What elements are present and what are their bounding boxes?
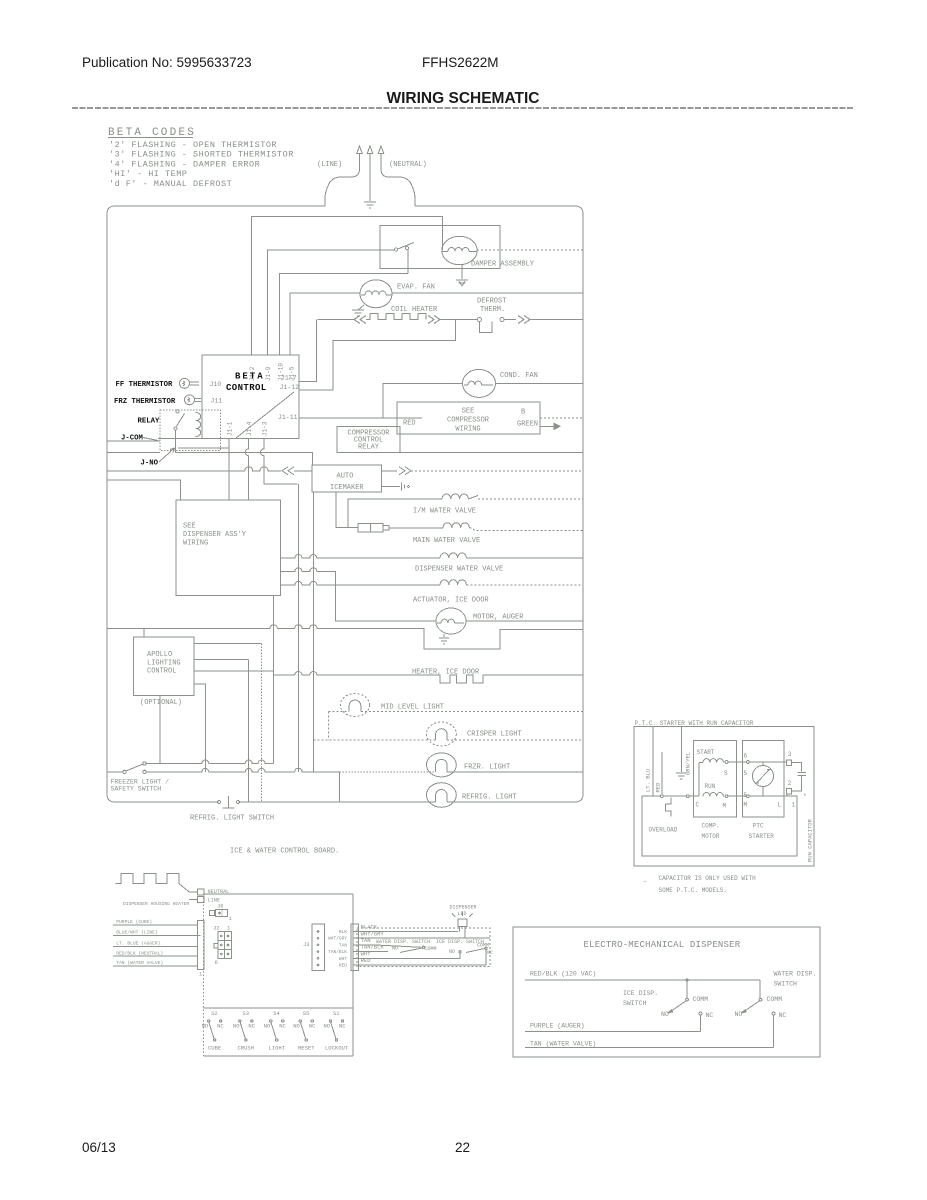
- svg-text:TAN: TAN: [339, 942, 347, 948]
- svg-text:NC: NC: [217, 1023, 224, 1030]
- svg-text:2: 2: [788, 780, 792, 787]
- svg-text:BLK: BLK: [339, 929, 347, 935]
- svg-text:BETA CODES: BETA CODES: [108, 127, 196, 139]
- svg-text:S4: S4: [273, 1010, 280, 1017]
- svg-text:PURPLE (CUBE): PURPLE (CUBE): [116, 919, 152, 925]
- svg-text:HEATER, ICE DOOR: HEATER, ICE DOOR: [412, 669, 480, 677]
- svg-text:S5: S5: [303, 1010, 310, 1017]
- svg-text:NC: NC: [248, 1023, 255, 1030]
- svg-text:WHT: WHT: [339, 956, 347, 962]
- svg-text:P.T.C. STARTER WITH RUN CAPACI: P.T.C. STARTER WITH RUN CAPACITOR: [635, 720, 754, 727]
- svg-text:LOCKOUT: LOCKOUT: [325, 1045, 349, 1052]
- svg-text:CAPACITOR IS ONLY USED WITH: CAPACITOR IS ONLY USED WITH: [659, 875, 757, 882]
- svg-text:COND. FAN: COND. FAN: [500, 372, 538, 380]
- svg-text:EVAP. FAN: EVAP. FAN: [397, 284, 435, 292]
- svg-text:COMPRESSOR: COMPRESSOR: [447, 417, 490, 425]
- svg-text:PURPLE (AUGER): PURPLE (AUGER): [530, 1023, 585, 1030]
- svg-text:J1-4: J1-4: [246, 421, 253, 436]
- svg-text:J6: J6: [217, 903, 224, 910]
- svg-text:NC: NC: [779, 1012, 787, 1019]
- svg-text:CONTROL: CONTROL: [226, 383, 267, 393]
- svg-text:SAFETY SWITCH: SAFETY SWITCH: [111, 786, 162, 793]
- svg-text:BLUE/WHT (LINE): BLUE/WHT (LINE): [116, 930, 157, 936]
- svg-text:M: M: [744, 802, 748, 809]
- svg-text:NO: NO: [293, 1023, 300, 1030]
- svg-text:TAN/BLK: TAN/BLK: [328, 949, 347, 955]
- svg-text:*: *: [803, 793, 807, 800]
- svg-text:ICEMAKER: ICEMAKER: [330, 484, 364, 492]
- svg-text:ELECTRO-MECHANICAL DISPENSER: ELECTRO-MECHANICAL DISPENSER: [584, 940, 741, 950]
- svg-text:STARTER: STARTER: [749, 833, 775, 840]
- svg-text:SEE: SEE: [462, 408, 475, 416]
- svg-text:S1: S1: [333, 1010, 340, 1017]
- svg-text:NO: NO: [233, 1023, 240, 1030]
- svg-text:ACTUATOR, ICE DOOR: ACTUATOR, ICE DOOR: [413, 597, 489, 605]
- svg-text:'d F' - MANUAL DEFROST: 'd F' - MANUAL DEFROST: [109, 179, 232, 189]
- svg-text:1: 1: [792, 802, 796, 809]
- svg-text:PTC: PTC: [753, 823, 764, 830]
- svg-text:DEFROST: DEFROST: [477, 298, 506, 306]
- svg-text:CRUSH: CRUSH: [238, 1045, 255, 1052]
- svg-text:COMM: COMM: [767, 996, 783, 1003]
- svg-text:L: L: [778, 802, 782, 809]
- svg-text:WIRING SCHEMATIC: WIRING SCHEMATIC: [387, 90, 540, 107]
- svg-text:COMM: COMM: [425, 946, 437, 952]
- svg-text:REFRIG. LIGHT SWITCH: REFRIG. LIGHT SWITCH: [190, 815, 274, 823]
- svg-text:'2' FLASHING - OPEN THERMISTOR: '2' FLASHING - OPEN THERMISTOR: [109, 140, 277, 150]
- svg-text:RED: RED: [361, 957, 372, 964]
- svg-text:NO: NO: [735, 1011, 743, 1018]
- svg-text:GRN/YEL: GRN/YEL: [684, 752, 691, 775]
- svg-text:RED: RED: [403, 420, 416, 428]
- svg-text:NO: NO: [324, 1023, 331, 1030]
- svg-text:DISPENSER ASS'Y: DISPENSER ASS'Y: [183, 531, 247, 539]
- svg-text:J10: J10: [210, 381, 222, 388]
- svg-text:J-NO: J-NO: [141, 460, 159, 468]
- svg-text:J1-11: J1-11: [278, 414, 298, 421]
- svg-text:DAMPER ASSEMBLY: DAMPER ASSEMBLY: [471, 261, 535, 269]
- svg-text:22: 22: [455, 1140, 470, 1155]
- svg-text:RED: RED: [655, 782, 662, 793]
- svg-text:MAIN WATER VALVE: MAIN WATER VALVE: [413, 537, 480, 545]
- svg-text:TAN (WATER VALVE): TAN (WATER VALVE): [116, 960, 163, 966]
- svg-text:J-COM: J-COM: [121, 435, 144, 443]
- svg-text:SEE: SEE: [183, 523, 196, 531]
- svg-text:6: 6: [744, 753, 748, 760]
- svg-text:FRZ THERMISTOR: FRZ THERMISTOR: [114, 398, 176, 406]
- svg-text:ICE & WATER CONTROL BOARD.: ICE & WATER CONTROL BOARD.: [230, 848, 339, 856]
- svg-text:DISPENSER: DISPENSER: [450, 905, 477, 911]
- svg-text:5: 5: [744, 770, 748, 777]
- svg-text:RED: RED: [339, 963, 347, 969]
- svg-text:DISPENSER WATER VALVE: DISPENSER WATER VALVE: [415, 566, 503, 574]
- svg-text:WATER DISP. SWITCH: WATER DISP. SWITCH: [376, 939, 430, 945]
- svg-text:COMM: COMM: [693, 996, 709, 1003]
- svg-text:FRZR. LIGHT: FRZR. LIGHT: [464, 764, 510, 772]
- svg-text:SWITCH: SWITCH: [774, 981, 798, 988]
- svg-text:CUBE: CUBE: [208, 1045, 222, 1052]
- svg-text:3: 3: [788, 751, 792, 758]
- svg-text:NO: NO: [202, 1023, 209, 1030]
- svg-text:NO: NO: [661, 1011, 669, 1018]
- svg-text:B: B: [521, 409, 525, 417]
- svg-text:APOLLO: APOLLO: [147, 651, 172, 659]
- svg-text:SOME P.T.C. MODELS.: SOME P.T.C. MODELS.: [659, 887, 727, 894]
- svg-text:GREEN: GREEN: [517, 421, 538, 429]
- svg-text:COMM: COMM: [477, 943, 489, 949]
- svg-text:START: START: [697, 749, 715, 756]
- svg-text:S: S: [724, 770, 728, 777]
- svg-text:COIL HEATER: COIL HEATER: [391, 306, 438, 314]
- svg-text:J1-10: J1-10: [278, 363, 285, 381]
- svg-text:RED/BLK (120 VAC): RED/BLK (120 VAC): [530, 971, 596, 978]
- svg-text:NC: NC: [487, 950, 493, 956]
- svg-text:(LINE): (LINE): [317, 161, 342, 169]
- svg-text:06/13: 06/13: [82, 1140, 116, 1155]
- svg-text:Publication No: 5995633723: Publication No: 5995633723: [82, 55, 252, 70]
- svg-text:CRISPER LIGHT: CRISPER LIGHT: [467, 731, 522, 739]
- svg-text:NC: NC: [309, 1023, 316, 1030]
- svg-text:NO: NO: [264, 1023, 271, 1030]
- svg-text:TAN (WATER VALVE): TAN (WATER VALVE): [530, 1041, 596, 1048]
- svg-text:RESET: RESET: [298, 1045, 315, 1052]
- svg-text:'3' FLASHING - SHORTED THERMIS: '3' FLASHING - SHORTED THERMISTOR: [109, 150, 294, 160]
- svg-text:REFRIG. LIGHT: REFRIG. LIGHT: [462, 794, 517, 802]
- svg-text:ICE DISP.: ICE DISP.: [623, 990, 658, 997]
- svg-text:(NEUTRAL): (NEUTRAL): [389, 161, 427, 169]
- svg-text:J1-12: J1-12: [280, 384, 300, 391]
- svg-text:RED/BLK (NEUTRAL): RED/BLK (NEUTRAL): [116, 950, 163, 956]
- svg-text:NO: NO: [449, 949, 455, 955]
- svg-text:RUN CAPACITOR: RUN CAPACITOR: [807, 818, 814, 862]
- svg-text:LIGHTING: LIGHTING: [147, 660, 181, 668]
- svg-text:NO: NO: [392, 946, 398, 952]
- svg-text:'HI' - HI TEMP: 'HI' - HI TEMP: [109, 169, 187, 179]
- svg-text:J1-3: J1-3: [262, 421, 269, 436]
- svg-text:S2: S2: [211, 1010, 218, 1017]
- svg-text:WHT/GRY: WHT/GRY: [328, 936, 347, 942]
- svg-text:6: 6: [215, 959, 218, 966]
- svg-text:J3: J3: [303, 941, 310, 948]
- svg-text:LIGHT: LIGHT: [269, 1045, 286, 1052]
- svg-text:WIRING: WIRING: [455, 426, 480, 434]
- svg-text:NEUTRAL: NEUTRAL: [208, 889, 230, 895]
- svg-text:WIRING: WIRING: [183, 540, 208, 548]
- svg-text:MOTOR, AUGER: MOTOR, AUGER: [473, 614, 524, 622]
- svg-text:M: M: [723, 803, 727, 810]
- svg-text:NC: NC: [339, 1023, 346, 1030]
- svg-text:NC: NC: [706, 1012, 714, 1019]
- svg-text:S3: S3: [242, 1010, 249, 1017]
- svg-text:RELAY: RELAY: [138, 418, 161, 426]
- svg-text:J1-9: J1-9: [265, 366, 272, 381]
- svg-text:DISPENSER HOUSING HEATER: DISPENSER HOUSING HEATER: [123, 901, 189, 907]
- svg-text:LED: LED: [458, 911, 467, 917]
- svg-text:FF THERMISTOR: FF THERMISTOR: [116, 381, 174, 389]
- svg-text:RELAY: RELAY: [358, 444, 380, 452]
- svg-text:J11: J11: [211, 397, 223, 404]
- svg-text:J2: J2: [213, 925, 220, 932]
- svg-text:FFHS2622M: FFHS2622M: [422, 55, 499, 70]
- svg-text:RUN: RUN: [705, 783, 716, 790]
- svg-text:I/M WATER VALVE: I/M WATER VALVE: [413, 508, 476, 516]
- svg-text:THERM.: THERM.: [480, 306, 505, 314]
- svg-text:FREEZER LIGHT /: FREEZER LIGHT /: [111, 779, 170, 786]
- svg-text:WATER DISP.: WATER DISP.: [774, 971, 817, 978]
- svg-text:CONTROL: CONTROL: [147, 668, 176, 676]
- svg-text:5: 5: [744, 792, 748, 799]
- svg-text:(OPTIONAL): (OPTIONAL): [140, 699, 182, 707]
- svg-text:C: C: [696, 802, 700, 809]
- svg-text:MOTOR: MOTOR: [702, 833, 720, 840]
- svg-text:AUTO: AUTO: [337, 473, 354, 481]
- svg-text:NC: NC: [279, 1023, 286, 1030]
- svg-text:LT. BLU: LT. BLU: [645, 769, 652, 792]
- svg-text:LT. BLUE (AUGER): LT. BLUE (AUGER): [116, 940, 160, 946]
- svg-text:MID LEVEL LIGHT: MID LEVEL LIGHT: [381, 704, 444, 712]
- svg-text:→: →: [643, 878, 647, 885]
- svg-text:J1-5: J1-5: [289, 366, 296, 381]
- svg-text:'4' FLASHING - DAMPER ERROR: '4' FLASHING - DAMPER ERROR: [109, 159, 260, 169]
- svg-text:BETA: BETA: [235, 372, 265, 382]
- svg-text:SWITCH: SWITCH: [623, 1000, 647, 1007]
- svg-text:J1-1: J1-1: [227, 421, 234, 436]
- svg-text:OVERLOAD: OVERLOAD: [649, 827, 678, 834]
- svg-text:COMP.: COMP.: [702, 823, 720, 830]
